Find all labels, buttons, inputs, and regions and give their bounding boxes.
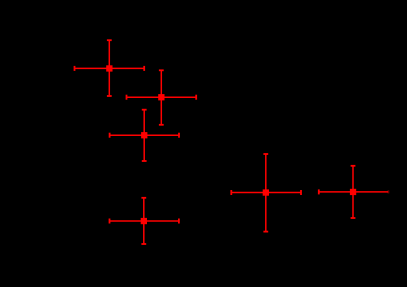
data point 6 error bars (319, 166, 389, 218)
data point 6 marker (350, 189, 356, 195)
data point 2 error bars (127, 70, 197, 125)
data point 4 error bars (110, 198, 179, 244)
data point 1 marker (106, 65, 112, 71)
data point 5 marker (263, 189, 269, 195)
data point 1 error bars (75, 40, 145, 96)
data point 3 error bars (110, 110, 179, 161)
data point 2 marker (158, 94, 164, 100)
data point 5 error bars (231, 154, 301, 232)
data point 3 marker (141, 132, 147, 138)
data point 4 marker (141, 218, 147, 224)
